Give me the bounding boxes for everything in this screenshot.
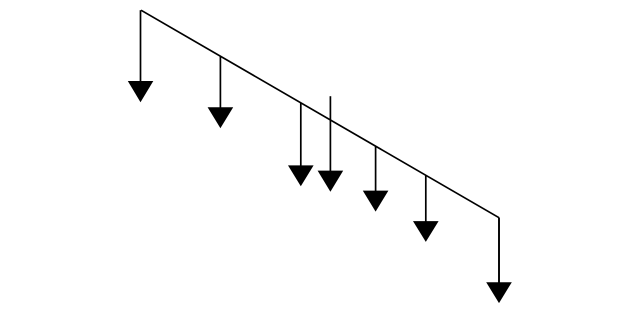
force arrow F6 head <box>413 221 439 242</box>
force arrow F5 shaft <box>375 146 377 192</box>
force arrow F4 shaft (starts above the beam line) <box>329 96 331 171</box>
force arrow F7 shaft <box>498 218 500 284</box>
wire: vertical drop segment at right end <box>498 218 500 283</box>
force arrow F7 head <box>486 282 512 303</box>
force arrow F3 shaft <box>300 103 302 167</box>
force arrow F3 head <box>288 165 314 186</box>
force arrow F2 shaft <box>219 56 221 108</box>
force arrow F6 shaft <box>425 175 427 222</box>
force arrow F2 head <box>208 107 234 128</box>
force arrow F5 head <box>363 191 389 212</box>
force arrow F1 head <box>128 81 154 102</box>
wire: inclined beam line from top-left to right corner <box>141 10 499 218</box>
force arrow F1 shaft <box>140 10 142 82</box>
force arrow F4 head <box>318 171 344 192</box>
